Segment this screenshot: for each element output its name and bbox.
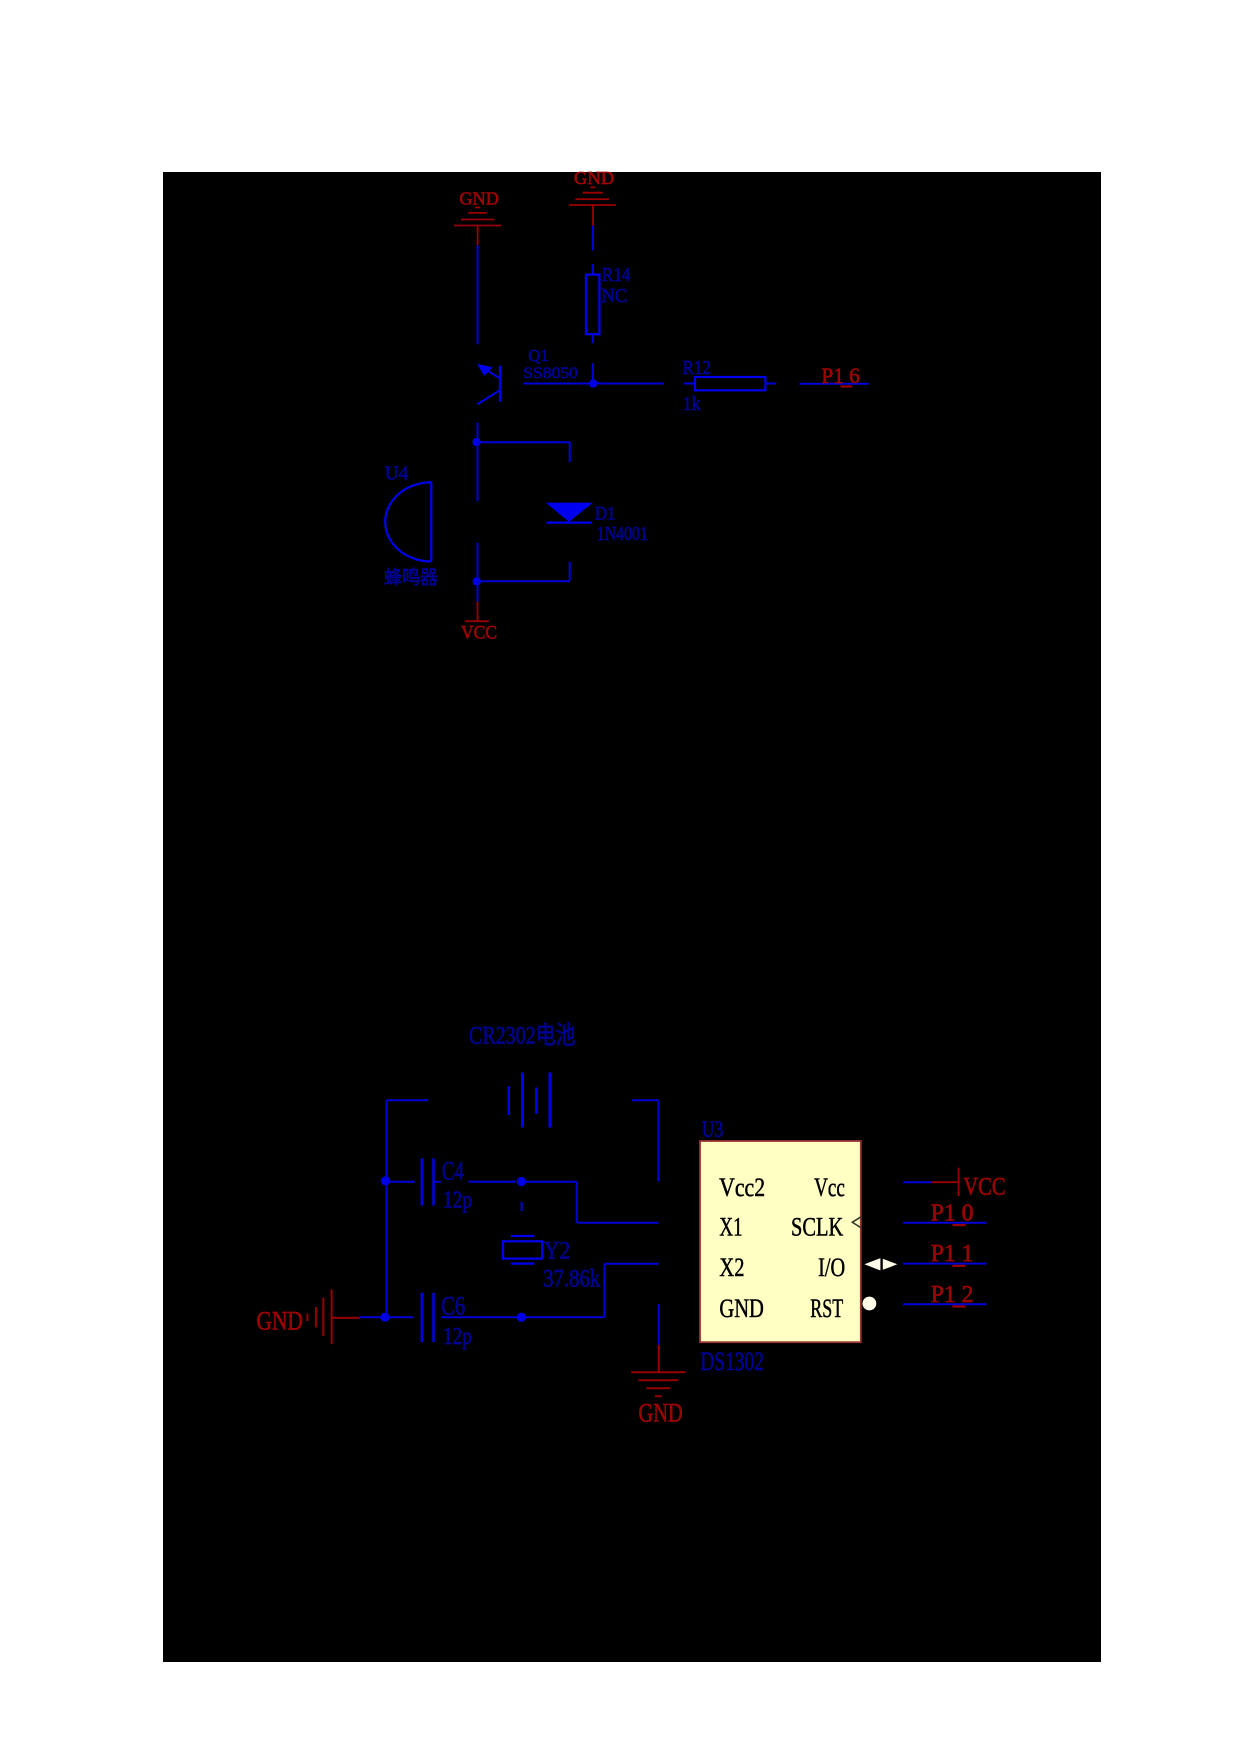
clock input symbol on SCLK [852, 1217, 861, 1228]
svg-text:蜂鸣器: 蜂鸣器 [384, 567, 438, 589]
wire GND to C5 [360, 1316, 414, 1318]
svg-text:GND: GND [639, 1398, 683, 1428]
wire battery right [632, 1100, 658, 1181]
net label P1_1 underscore [953, 1265, 966, 1267]
svg-text:12p: 12p [443, 1186, 472, 1213]
svg-text:U4: U4 [385, 462, 409, 484]
power symbol GND (bottom) [631, 1345, 685, 1397]
svg-text:RST: RST [810, 1293, 843, 1323]
svg-text:SS8050: SS8050 [523, 365, 578, 382]
svg-text:1N4001: 1N4001 [597, 524, 648, 545]
svg-text:12p: 12p [443, 1323, 472, 1350]
wire buzzer bottom to node [477, 543, 479, 577]
wire node to VCC [477, 585, 479, 601]
wire left rail vertical [386, 1100, 388, 1317]
wire DS1302 GND pin down [658, 1304, 660, 1345]
svg-text:D1: D1 [595, 503, 616, 524]
capacitor C4 [390, 1159, 441, 1206]
svg-text:37.86k: 37.86k [543, 1266, 600, 1293]
svg-text:GND: GND [719, 1293, 764, 1323]
wire net P1_0 [903, 1222, 987, 1224]
svg-text:GND: GND [574, 168, 614, 188]
wire node to D1 cathode [477, 580, 570, 582]
svg-text:X1: X1 [719, 1212, 742, 1242]
I/O bidirectional arrow symbol [864, 1258, 897, 1270]
svg-text:Vcc2: Vcc2 [719, 1172, 765, 1202]
crystal Y2 [503, 1202, 542, 1264]
wire X1 [526, 1182, 659, 1223]
power symbol VCC (right) [932, 1168, 959, 1196]
svg-text:C6: C6 [441, 1292, 465, 1321]
junction node X1/crystal top [517, 1177, 526, 1186]
power symbol GND (left) [307, 1290, 359, 1345]
power symbol GND (top left) [454, 208, 501, 246]
svg-text:R12: R12 [683, 358, 711, 379]
diode D1 [546, 503, 593, 581]
wire GND to Q1 collector [477, 245, 479, 344]
wire X2 [604, 1264, 658, 1318]
junction node left rail / C5 [380, 1313, 389, 1322]
buzzer U4 [385, 482, 431, 561]
junction node left rail / C4 [381, 1176, 390, 1185]
wire node to buzzer top [477, 446, 479, 501]
svg-text:DS1302: DS1302 [700, 1346, 764, 1376]
svg-text:P1 2: P1 2 [931, 1281, 974, 1308]
battery CR2302 [509, 1073, 550, 1128]
wire C4 to X1 node [468, 1181, 515, 1183]
wire Q1 base [523, 383, 664, 385]
wire node to D1 anode [477, 442, 570, 462]
junction node base/R14 [589, 379, 597, 387]
svg-text:P1 0: P1 0 [931, 1199, 974, 1226]
wire net P1_2 [903, 1303, 987, 1305]
svg-text:CR2302电池: CR2302电池 [469, 1022, 576, 1050]
power symbol GND (top right) [569, 187, 616, 225]
svg-text:GND: GND [257, 1305, 303, 1335]
junction node buzzer/diode/VCC [473, 577, 481, 585]
svg-text:VCC: VCC [461, 623, 497, 644]
svg-text:P1 6: P1 6 [821, 363, 859, 388]
svg-text:1k: 1k [683, 394, 701, 415]
svg-text:Vcc: Vcc [814, 1172, 845, 1202]
svg-text:X2: X2 [719, 1252, 744, 1282]
RST pin dot symbol [863, 1297, 877, 1311]
wire Vcc pin [903, 1181, 931, 1183]
svg-text:NC: NC [602, 286, 628, 307]
svg-text:R14: R14 [602, 265, 630, 286]
transistor Q1 [477, 364, 500, 404]
schematic black canvas [163, 172, 1101, 1662]
wire Q1 emitter to node [477, 423, 479, 443]
resistor R14 [586, 275, 600, 335]
capacitor C5 [422, 1293, 434, 1342]
power symbol VCC (top section) [465, 601, 489, 621]
wire R14 bottom pin [592, 334, 594, 343]
resistor R12 [684, 377, 777, 390]
wire GND to R14 [592, 226, 594, 275]
svg-text:C4: C4 [442, 1156, 464, 1186]
net label P1_0 underscore [953, 1224, 966, 1226]
wire battery left [387, 1099, 428, 1101]
svg-text:I/O: I/O [818, 1252, 845, 1282]
wire C5 to X2 corner [441, 1316, 604, 1318]
net label P1_2 underscore [953, 1305, 966, 1307]
junction node emitter/diode/buzzer [473, 438, 481, 446]
wire net P1_6 [800, 383, 869, 385]
svg-text:U3: U3 [702, 1117, 723, 1143]
svg-text:Y2: Y2 [544, 1238, 571, 1265]
net label P1_6 underscore [841, 385, 852, 387]
svg-text:Q1: Q1 [528, 346, 548, 365]
svg-text:SCLK: SCLK [791, 1212, 843, 1242]
junction node C5/X2 [517, 1313, 526, 1322]
svg-text:GND: GND [459, 189, 499, 209]
svg-text:P1 1: P1 1 [931, 1240, 974, 1267]
wire net P1_1 [903, 1263, 987, 1265]
IC U3 DS1302 body [700, 1141, 861, 1342]
wire R14 to base node [592, 363, 594, 383]
svg-text:VCC: VCC [963, 1171, 1005, 1200]
